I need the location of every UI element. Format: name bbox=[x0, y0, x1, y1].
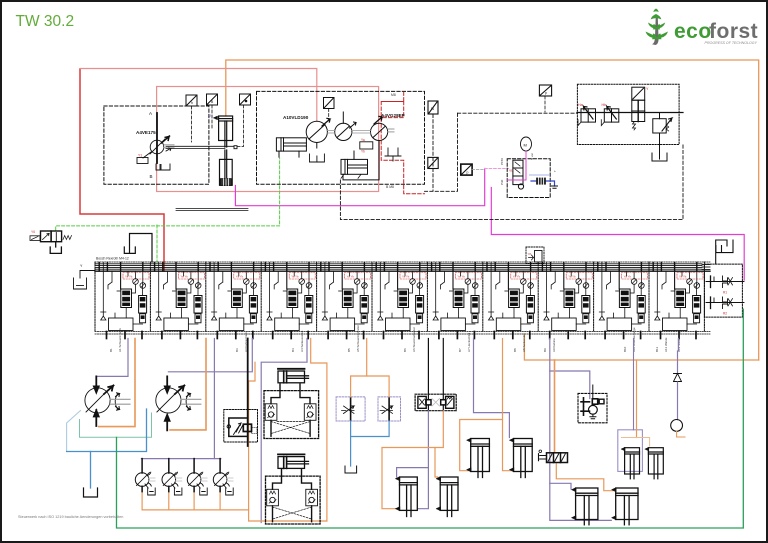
svg-text:B: B bbox=[211, 100, 214, 104]
valve section 3 bbox=[206, 262, 260, 339]
measuring square M3 bbox=[240, 94, 251, 105]
hand pump box bbox=[578, 393, 607, 422]
wire magenta pilot 1 bbox=[235, 169, 484, 206]
dashed box system boundary bbox=[340, 144, 683, 220]
2-position valve bbox=[632, 87, 649, 130]
svg-text:S var: S var bbox=[530, 153, 534, 160]
motor 2 bbox=[156, 376, 201, 430]
shield cylinder 1 bbox=[467, 438, 490, 477]
square p measuring bbox=[539, 85, 551, 96]
svg-text:Y: Y bbox=[646, 87, 649, 91]
valve section 4 bbox=[261, 262, 315, 339]
svg-text:B M8: B M8 bbox=[386, 185, 394, 189]
wire orange feed top bbox=[226, 60, 759, 360]
solenoid of A4VE175 bbox=[137, 158, 148, 164]
valve section 2 bbox=[150, 262, 204, 339]
prop relief valve Ha bbox=[578, 103, 596, 126]
ecoforst logo bbox=[646, 9, 759, 46]
purple stab 2 wiring bbox=[474, 339, 510, 438]
orange feed flow valves bbox=[351, 339, 367, 397]
wheel motor 4 bbox=[213, 459, 233, 495]
pilot valve Y6 left bbox=[30, 231, 71, 253]
svg-text:h: h bbox=[191, 101, 193, 105]
orange stab 2 wiring bbox=[460, 339, 503, 471]
svg-text:A5 Schwenkzylinder: A5 Schwenkzylinder bbox=[356, 325, 360, 352]
orifice check box bbox=[415, 394, 456, 411]
svg-text:P150: P150 bbox=[500, 158, 504, 165]
end block dotted box bbox=[704, 264, 742, 317]
wire green dashed pilot bbox=[56, 158, 280, 230]
svg-text:R1: R1 bbox=[723, 291, 727, 295]
svg-text:Y8: Y8 bbox=[528, 252, 532, 256]
pale blue pilot wire bbox=[530, 174, 550, 176]
mid group 1 valve box bbox=[264, 384, 319, 438]
charge cylinder lower bbox=[220, 150, 233, 185]
wheel motor 2 bbox=[162, 459, 182, 495]
square half-p pilot bbox=[461, 164, 472, 175]
pump A4VE175 bbox=[143, 113, 174, 163]
solenoid block A4VG28EP bbox=[360, 142, 373, 149]
svg-text:Y1: Y1 bbox=[138, 154, 142, 158]
wire orange mid box left bbox=[249, 362, 327, 521]
svg-text:B10: B10 bbox=[623, 346, 627, 352]
servo cylinder left bbox=[276, 138, 306, 157]
manifold bus lines bbox=[95, 262, 710, 334]
svg-text:A1 Schwenk werk: A1 Schwenk werk bbox=[118, 328, 122, 352]
end block tank pipe bbox=[716, 240, 733, 264]
zange cylinder 2 bbox=[645, 447, 663, 479]
blue flow return bbox=[351, 421, 390, 466]
svg-text:p: p bbox=[545, 91, 547, 95]
svg-text:Ha: Ha bbox=[578, 103, 583, 107]
tank blue drain bbox=[84, 488, 98, 497]
square N2 bbox=[428, 101, 438, 114]
wire orange to motor2 bbox=[170, 339, 206, 430]
relief valve right bbox=[653, 113, 672, 154]
kabine purple drop bbox=[677, 339, 680, 374]
tank under A4VG28EP bbox=[385, 148, 401, 161]
charge cylinder upper bbox=[214, 116, 233, 147]
svg-text:A8 Seilwinde: A8 Seilwinde bbox=[522, 334, 526, 352]
orange stub under gauge bbox=[677, 431, 685, 437]
blue pilot wire bbox=[531, 181, 555, 186]
svg-text:Hb: Hb bbox=[602, 103, 607, 107]
svg-text:B3: B3 bbox=[235, 348, 239, 352]
end block check valve R1 bbox=[706, 276, 744, 295]
valve section 7 bbox=[427, 262, 481, 339]
purple feed rueckezange bbox=[633, 339, 635, 430]
svg-text:p: p bbox=[467, 171, 469, 175]
svg-text:Yb: Yb bbox=[361, 149, 365, 153]
brake valve feed bbox=[247, 339, 249, 447]
flow control valve 2 bbox=[378, 397, 401, 421]
svg-text:T: T bbox=[553, 170, 557, 172]
measuring square M1 bbox=[186, 95, 197, 106]
wire purple to motor1 bbox=[98, 339, 129, 377]
svg-text:M: M bbox=[524, 143, 527, 148]
svg-text:A4 Seilausstoss: A4 Seilausstoss bbox=[300, 330, 304, 352]
svg-text:A11 Winde: A11 Winde bbox=[664, 337, 668, 352]
svg-text:TW 30.2: TW 30.2 bbox=[16, 13, 75, 30]
mid cylinder group 1 cylinder bbox=[278, 369, 309, 383]
dashed link squares N2/B bbox=[432, 114, 434, 190]
orange feed rueckezange bbox=[636, 360, 638, 438]
logo tree trunk bbox=[652, 15, 659, 45]
pump 2 circle bbox=[335, 112, 356, 141]
svg-text:PROGRESS OF TECHNOLOGY: PROGRESS OF TECHNOLOGY bbox=[705, 41, 758, 45]
svg-text:R2: R2 bbox=[723, 312, 727, 316]
svg-text:Y: Y bbox=[80, 264, 83, 268]
wire orange lower bus bbox=[524, 334, 758, 360]
wire orange mid box right bbox=[311, 339, 327, 522]
logo tree branches bbox=[646, 9, 669, 40]
coil bbox=[536, 178, 546, 185]
measuring square M4 bbox=[324, 98, 335, 109]
dashed pilot lines from squares bbox=[192, 96, 546, 147]
motor M circle bbox=[521, 137, 532, 159]
servo cylinder right bbox=[341, 151, 368, 178]
valve section 11 bbox=[649, 262, 703, 339]
shaft line lower bbox=[176, 208, 248, 210]
orange winch feed bbox=[554, 360, 556, 453]
svg-text:forst: forst bbox=[709, 20, 758, 43]
tank under relief bbox=[652, 153, 667, 161]
valve section 10 bbox=[594, 262, 648, 339]
tank pipe above row bbox=[124, 234, 152, 263]
end block entry stubs bbox=[702, 265, 710, 270]
wheel motor 3 bbox=[187, 459, 207, 495]
wire green return frame bbox=[117, 309, 744, 528]
check valve kabine bbox=[674, 374, 682, 382]
flow control valve 1 bbox=[336, 397, 365, 421]
wire purple to motor2 bbox=[168, 339, 252, 372]
purple lift circuit bbox=[397, 411, 429, 477]
svg-text:B11: B11 bbox=[655, 347, 659, 352]
svg-text:A10VLD190: A10VLD190 bbox=[283, 115, 309, 120]
square half-B bbox=[428, 157, 438, 168]
salmon box around charge circuit bbox=[157, 87, 379, 192]
gauge circle bbox=[671, 420, 683, 432]
tank left of row bbox=[74, 271, 96, 290]
tank flow return bbox=[345, 466, 357, 473]
section port labels bbox=[109, 325, 681, 352]
svg-text:A9 Kabine: A9 Kabine bbox=[552, 338, 556, 352]
winch cylinder 1 bbox=[572, 488, 598, 525]
shaft between pumps bbox=[327, 130, 334, 132]
stabilizer cylinder 2 bbox=[436, 477, 458, 517]
wire pale blue drain bbox=[67, 411, 81, 452]
purple winch long bbox=[550, 339, 612, 521]
magenta inside cluster bbox=[507, 159, 526, 180]
svg-text:B5: B5 bbox=[347, 348, 351, 352]
svg-text:B8: B8 bbox=[513, 348, 517, 352]
svg-text:N: N bbox=[431, 106, 434, 111]
valve section 8 bbox=[483, 262, 537, 339]
pilot cluster internals bbox=[513, 160, 524, 189]
pilot unit above section 8 bbox=[526, 247, 544, 264]
svg-text:eco: eco bbox=[674, 20, 712, 43]
tank small bbox=[552, 186, 558, 188]
wire purple long mid bbox=[261, 339, 307, 523]
tank under pump1 bbox=[310, 154, 325, 162]
bus line in valve box bbox=[577, 112, 683, 114]
measuring square M2 bbox=[207, 94, 218, 105]
wheel motor orange returns bbox=[142, 490, 249, 510]
valve section 9 bbox=[538, 262, 592, 339]
svg-text:B6: B6 bbox=[403, 348, 407, 352]
wire pump A4VG28EP to cylinder bbox=[343, 141, 379, 180]
svg-text:A4VE175: A4VE175 bbox=[136, 130, 156, 135]
wire purple feed wheel motors bbox=[213, 339, 215, 459]
svg-text:P30: P30 bbox=[500, 179, 504, 185]
zange cylinder 1 bbox=[621, 447, 639, 479]
dotted box brake valves bbox=[577, 84, 679, 144]
svg-text:A: A bbox=[149, 111, 152, 116]
svg-text:Y9: Y9 bbox=[509, 169, 513, 173]
brake valve box bbox=[224, 410, 258, 443]
wire orange to motor1 bbox=[99, 339, 135, 427]
svg-text:B7: B7 bbox=[458, 348, 462, 352]
prop relief valve Hb bbox=[601, 103, 619, 126]
svg-text:M8: M8 bbox=[391, 93, 396, 97]
svg-text:A6 Stuetzradheber: A6 Stuetzradheber bbox=[412, 327, 416, 352]
svg-text:B9: B9 bbox=[543, 348, 547, 352]
dashed box pump group A10V/A4VG bbox=[257, 91, 425, 184]
dash-dot link p to pilot cluster bbox=[472, 169, 484, 171]
mid cylinder group 2 cylinder bbox=[278, 454, 309, 468]
pump A4VG28EP circle bbox=[371, 116, 395, 140]
purple box rueckezange bbox=[618, 430, 643, 472]
svg-text:B1: B1 bbox=[109, 348, 113, 352]
svg-text:Steuerwerk nach ISO 1219 bauli: Steuerwerk nach ISO 1219 bauliche Aender… bbox=[18, 515, 123, 519]
coupler box bbox=[234, 146, 237, 149]
wire magenta pilot 2 bbox=[491, 188, 744, 281]
purple to gauge bbox=[677, 382, 679, 420]
svg-text:A4VG28EP: A4VG28EP bbox=[381, 113, 405, 118]
shield cylinder 2 bbox=[510, 438, 533, 477]
svg-text:A7 Heckschild: A7 Heckschild bbox=[467, 333, 471, 352]
valve section 1 bbox=[95, 262, 149, 339]
end block check valve R2 bbox=[706, 297, 744, 316]
svg-text:Bosch Rexroth M4-12: Bosch Rexroth M4-12 bbox=[96, 257, 129, 261]
wire teal swash link bbox=[80, 413, 152, 437]
dashed box pump A4VE175 bbox=[104, 106, 209, 184]
mid group 2 valve box bbox=[266, 470, 321, 524]
wire salmon feed to pump A10VLD190 bbox=[81, 69, 317, 121]
tank under A4VE175 bbox=[156, 164, 170, 170]
svg-text:Ya: Ya bbox=[361, 138, 365, 142]
hand valve winch bbox=[539, 450, 568, 463]
stabilizer cylinder 1 bbox=[396, 477, 418, 517]
valve section 6 bbox=[372, 262, 426, 339]
wire red supply bbox=[80, 69, 164, 271]
svg-text:B: B bbox=[150, 174, 153, 179]
svg-text:B4: B4 bbox=[291, 348, 295, 352]
wheel motor 1 bbox=[135, 459, 155, 495]
motor 1 bbox=[85, 376, 130, 426]
shaft line A4VE175 to valve bbox=[166, 145, 234, 147]
red dashed box pump A4VG28EP bbox=[381, 92, 424, 194]
pilot cluster dashed box bbox=[507, 159, 550, 198]
valve section 5 bbox=[317, 262, 371, 339]
winch cylinder 2 bbox=[612, 488, 638, 525]
orange lift circuit bbox=[382, 411, 443, 509]
wire blue drain to tank bbox=[90, 452, 92, 489]
svg-text:M: M bbox=[208, 114, 211, 118]
pump A10VLD190 bbox=[306, 118, 330, 148]
svg-text:Y6: Y6 bbox=[31, 230, 35, 234]
